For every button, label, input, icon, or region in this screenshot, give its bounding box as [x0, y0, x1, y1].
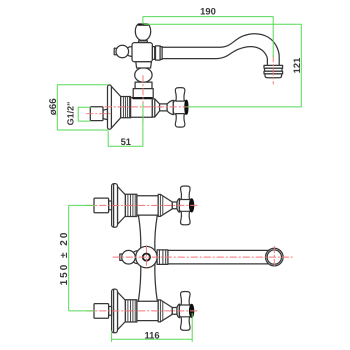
svg-text:ø66: ø66 [48, 98, 59, 115]
finial flat top cap [139, 23, 148, 25]
centerline: bottom view top valve axis [87, 204, 198, 206]
left nub neck curves [128, 47, 133, 57]
dimension o66 line [57, 85, 108, 130]
top valve: flare [177, 199, 179, 213]
top valve: bottom spoke [181, 211, 191, 225]
spout nut ring B [156, 46, 161, 60]
svg-text:121: 121 [291, 58, 302, 74]
centerline: bottom view bottom valve axis [87, 310, 198, 312]
dimension 121 line [145, 24, 302, 107]
spout end outer circle [266, 248, 284, 266]
center knob ball [122, 250, 136, 264]
dimension 190 line [143, 17, 273, 57]
top valve: front cap (black) [189, 199, 194, 212]
bottom valve: wall connector [94, 304, 109, 319]
centerline: bottom view spout axis [113, 256, 294, 258]
body column left edge lower [138, 263, 140, 301]
valve body [130, 98, 152, 118]
centerline: central circle vertical [145, 246, 147, 269]
bottom valve: top spoke [181, 292, 191, 306]
dimension 150 line [69, 205, 94, 311]
top valve: flange cone [118, 187, 126, 225]
handle taper cone [152, 99, 159, 117]
centerline: top view vertical body axis [142, 76, 144, 123]
aerator at spout end [264, 65, 283, 68]
top valve: body [137, 196, 158, 215]
top valve: hub [179, 199, 191, 213]
central screw ring (thick) [143, 254, 150, 261]
wide ring above valve [133, 89, 153, 98]
handle hub [173, 100, 186, 114]
handle top spoke [175, 88, 185, 102]
left nub flat face [114, 48, 116, 55]
neck under finial [139, 41, 148, 43]
body block [132, 43, 152, 62]
centerline: top view valve axis [105, 106, 188, 108]
top valve: wall connector [94, 198, 109, 213]
bottom valve: hub [179, 304, 191, 318]
body column right edge lower [155, 263, 158, 301]
top valve: top spoke [181, 186, 191, 200]
wall connector G1/2 [90, 107, 103, 121]
bottom valve: front cap (black) [189, 304, 194, 317]
top valve: eccentric neck [109, 201, 112, 210]
svg-text:51: 51 [121, 136, 131, 147]
bottom valve: flange cone [118, 292, 126, 330]
bottom valve: flange plate inner line [113, 290, 115, 332]
bottom valve: eccentric neck [109, 307, 112, 316]
svg-text:G1/2": G1/2" [66, 102, 76, 126]
ring below lower ball [135, 82, 152, 89]
spout end inner circle [267, 250, 281, 264]
central body circle [136, 246, 157, 267]
centerline: spout end circle vertical [273, 246, 275, 268]
spout union rings [157, 250, 168, 265]
bottom valve: wall flange plate [112, 289, 118, 333]
handle bottom spoke [175, 114, 185, 128]
top valve: knurled nut [125, 194, 136, 216]
body column right edge upper [155, 215, 158, 250]
bottom valve: knurled nut [125, 300, 136, 322]
center knob neck curves [134, 251, 139, 264]
svg-text:116: 116 [144, 330, 159, 341]
svg-text:150 ± 20: 150 ± 20 [59, 231, 70, 286]
neck between block and lower ball [136, 62, 152, 68]
top valve: taper ridges [160, 194, 162, 216]
top valve: wall flange plate [112, 184, 118, 228]
flange cone [111, 86, 120, 128]
bottom valve: stem [172, 308, 177, 315]
dimension 51 line [108, 104, 143, 146]
top valve: flange plate inner line [113, 184, 115, 226]
handle stem [160, 104, 168, 111]
valve body thick top edge [133, 97, 151, 99]
knurled nut [121, 97, 131, 118]
centerline: spout outlet axis [272, 56, 274, 85]
finial ball on top of body [135, 24, 150, 40]
bottom valve: nut ridges [128, 300, 135, 322]
knurled nut ridges [123, 97, 129, 118]
body column left edge upper [138, 215, 140, 250]
eccentric union neck [103, 109, 107, 119]
top valve: taper cone [158, 194, 172, 216]
spout tube (plan) [168, 250, 271, 264]
bottom valve: bottom spoke [181, 317, 191, 331]
center knob flat face [120, 254, 122, 260]
spout nut ring A [152, 47, 154, 60]
left nub ball [116, 45, 129, 58]
bottom valve: body [137, 301, 158, 320]
spout tube upper edge [162, 34, 279, 66]
svg-text:190: 190 [200, 6, 216, 17]
bottom valve: flare [177, 304, 179, 318]
taper ridge line [154, 99, 156, 117]
top valve: stem [172, 202, 177, 209]
dimension 116 line [112, 314, 193, 342]
bottom valve: taper ridges [160, 300, 162, 322]
spout nut ring C [160, 47, 162, 60]
wall flange plate [108, 85, 112, 129]
dimension G1/2 bracket [78, 107, 90, 121]
top valve: nut ridges [128, 194, 135, 216]
lower ball of body column [135, 68, 152, 83]
handle flare [167, 100, 173, 114]
centerline: top view connector axis [87, 113, 111, 115]
spout tube lower edge [162, 47, 267, 66]
bottom valve: taper cone [158, 300, 172, 322]
handle front cap (black) [185, 100, 188, 114]
